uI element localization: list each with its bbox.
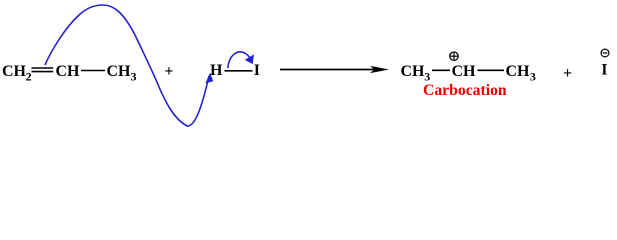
svg-text:CH: CH: [56, 63, 81, 80]
svg-text:CH: CH: [401, 63, 426, 80]
svg-text:2: 2: [26, 70, 32, 84]
svg-text:3: 3: [131, 70, 137, 84]
svg-text:3: 3: [530, 70, 536, 84]
svg-text:CH: CH: [107, 63, 132, 80]
svg-text:+: +: [164, 63, 173, 80]
svg-text:CH: CH: [506, 63, 531, 80]
svg-text:I: I: [601, 62, 607, 79]
svg-text:I: I: [254, 62, 260, 79]
svg-text:H: H: [210, 62, 223, 79]
svg-text:CH: CH: [2, 63, 27, 80]
svg-text:CH: CH: [452, 63, 477, 80]
svg-text:Carbocation: Carbocation: [423, 82, 507, 99]
svg-text:+: +: [563, 65, 572, 82]
